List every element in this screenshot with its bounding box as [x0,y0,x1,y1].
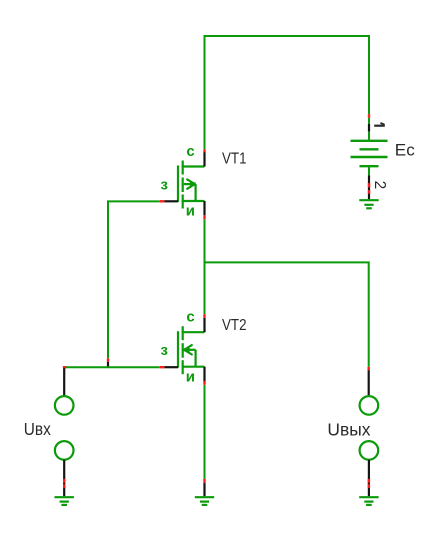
ground under Uvyh [359,497,378,505]
Uvh top ring [55,396,74,415]
terminal Uvyh (output port, two ring terminals) [360,367,379,496]
Ec pin 1 lead [368,118,370,124]
svg-text:Ec: Ec [395,141,415,160]
VT1 drain bar [182,165,205,167]
Ec pin 2 lead [368,166,370,175]
VT2 drain bar [182,331,205,333]
terminal Uvh (input port, two ring terminals) [55,368,74,496]
node: VT1 gate connection (red dot) [160,200,165,202]
VT2 substrate line with arrow in [184,349,196,351]
Ec plate long (positive) [351,140,388,142]
svg-text:с: с [186,309,194,326]
Uvh bottom ring [55,441,74,460]
node: VT2 source connection (red dot) [203,381,205,385]
wire: VT1 source to VT2 drain [204,219,206,314]
wire: VT1 gate down-run [108,201,160,358]
VT1 gate electrode line [177,166,179,203]
node: gate bus junction pin (red dot + black stub) [107,358,109,361]
node: VT1 source connection (red dot) [203,215,205,219]
node: VT2 gate connection (red dot) [160,366,165,368]
svg-text:и: и [186,368,195,385]
VT2 channel dashes [182,326,184,340]
Uvh ground pin stub with red dashes [63,460,65,496]
Uvyh top pin stub [368,370,370,396]
svg-text:2: 2 [371,181,388,190]
svg-text:с: с [186,143,194,160]
svg-text:з: з [160,342,167,359]
VT1 source pin stub [203,201,205,215]
svg-text:Uвх: Uвх [24,419,51,439]
ground under Uvh [55,497,74,505]
node: Uvyh connection (red dot) [368,367,370,370]
Uvyh ground pin stub with red dashes [368,460,370,496]
transistor VT1 (p-channel MOSFET) [178,161,205,209]
Ec plate short [360,148,379,150]
Uvh top pin stub [63,368,65,396]
Uvyh top ring [360,396,379,415]
battery Ec [351,114,389,199]
transistor VT2 (n-channel MOSFET) [178,326,205,374]
VT1 channel dashes [182,161,184,175]
wire: gate bus to Uvh terminal [64,366,160,368]
svg-text:VT2: VT2 [222,317,247,334]
VT1 source bar [182,200,205,202]
node: Ec pin 2 red dashes [368,183,370,187]
ground under Ec [359,200,378,208]
node: VT2 drain connection (red dot) [203,314,205,318]
VT1 gate pin stub [164,200,178,202]
Ec plate short (negative) [360,165,379,167]
svg-text:VT1: VT1 [222,151,247,168]
node: Ec pin 1 connection (red dot) [368,114,370,118]
wire: top bus VT1 drain to Ec pin 1 [205,36,370,149]
svg-text:Uвых: Uвых [327,419,370,439]
VT2 gate pin stub [164,366,178,368]
VT2 substrate to source connector [195,350,197,367]
VT1 drain pin stub [203,152,205,166]
wire: output branch to Uvyh terminal [205,262,369,366]
svg-text:з: з [160,176,167,193]
node: VT1 drain connection (red dot) [203,149,205,152]
VT1 substrate line with arrow out [184,183,196,185]
VT2 source pin stub [203,367,205,381]
VT2 drain pin stub [203,318,205,332]
Ec pin number 1 [374,123,385,126]
ground under VT2 source [195,497,214,505]
svg-text:и: и [186,203,195,220]
VT2 source bar [182,366,205,368]
node: Uvh terminal connection (red dot) [63,366,66,368]
VT1 substrate to source connector [195,184,197,201]
VT2 gate electrode line [177,331,179,368]
Ec plate long [351,156,388,158]
wire: VT2 source to ground [204,385,206,479]
Uvyh bottom ring [360,441,379,460]
node: VT2 source ground pin (red dot + black stub) [203,479,205,483]
